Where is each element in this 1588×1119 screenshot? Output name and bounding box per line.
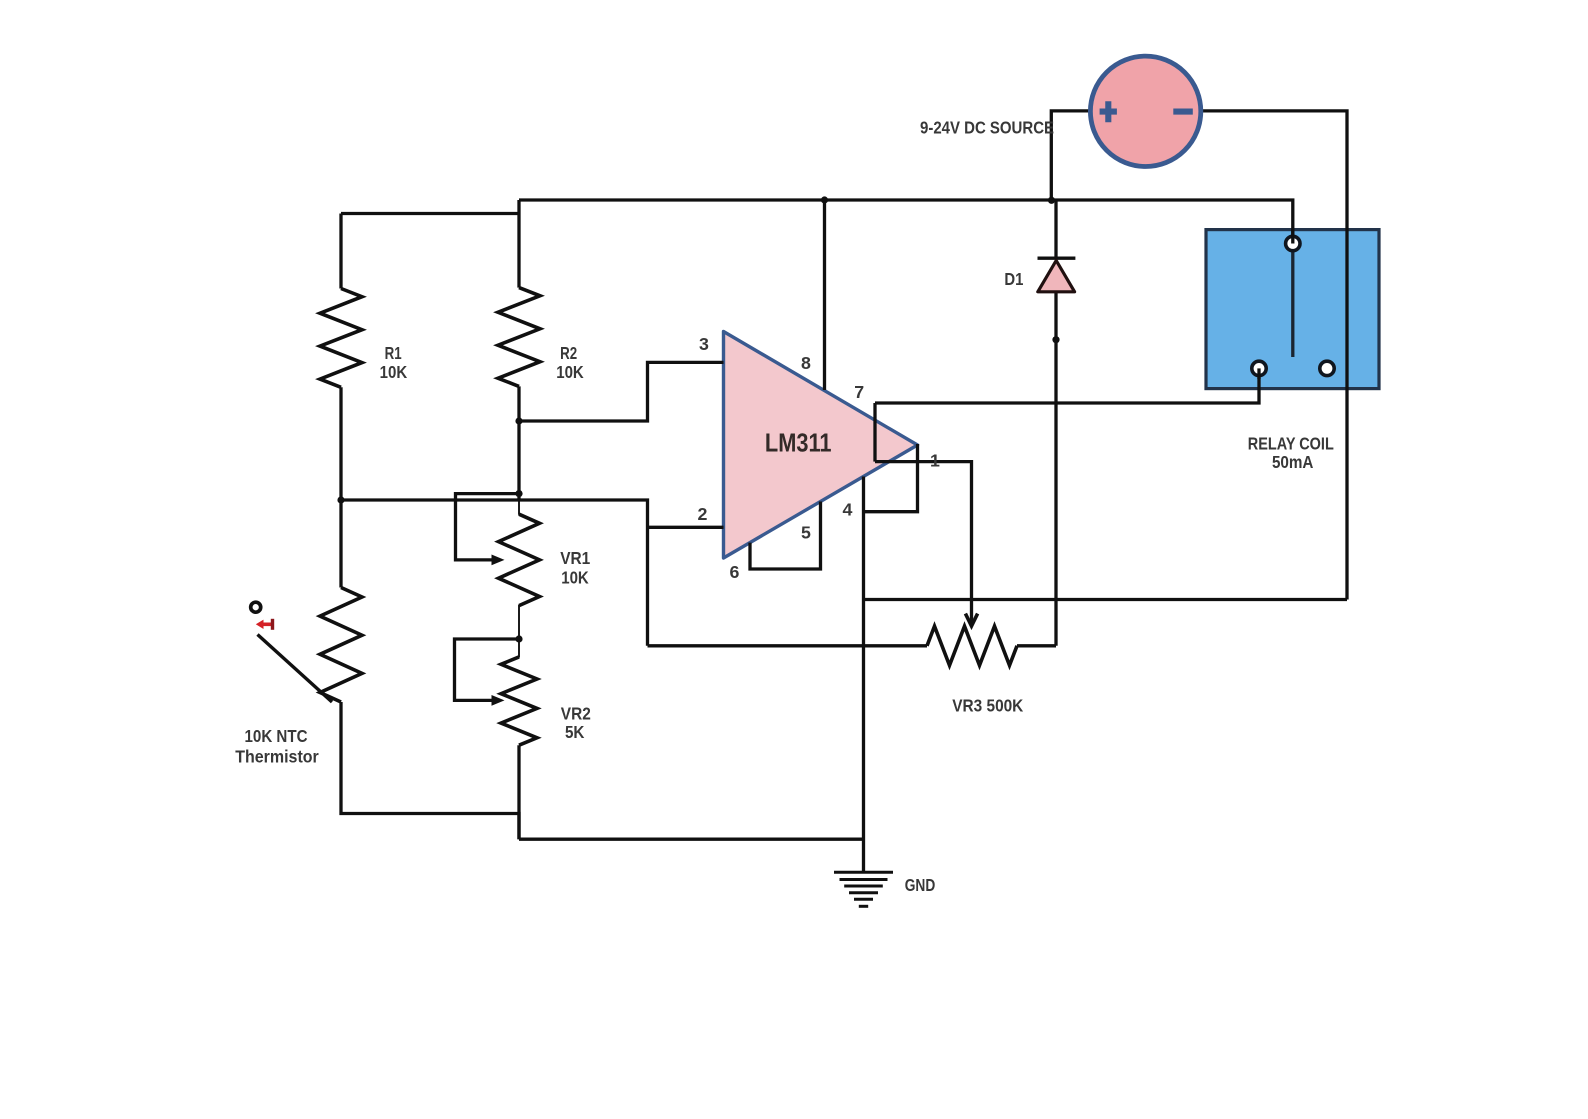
svg-text:50mA: 50mA [1272, 452, 1314, 472]
svg-text:10K NTC: 10K NTC [245, 726, 308, 746]
svg-text:3: 3 [699, 334, 709, 354]
svg-text:D1: D1 [1004, 269, 1023, 289]
svg-text:9-24V DC SOURCE: 9-24V DC SOURCE [920, 117, 1054, 137]
svg-text:R1: R1 [385, 343, 402, 363]
svg-text:R2: R2 [560, 343, 577, 363]
svg-text:10K: 10K [380, 362, 408, 382]
svg-text:7: 7 [854, 382, 864, 402]
svg-text:VR3 500K: VR3 500K [952, 695, 1023, 715]
svg-text:GND: GND [905, 875, 936, 895]
svg-text:5K: 5K [565, 722, 585, 742]
svg-text:5: 5 [801, 523, 811, 543]
svg-text:10K: 10K [561, 568, 589, 588]
svg-text:2: 2 [698, 504, 708, 524]
svg-text:10K: 10K [556, 362, 584, 382]
svg-text:4: 4 [843, 499, 853, 519]
svg-text:Thermistor: Thermistor [235, 747, 319, 767]
svg-text:8: 8 [801, 353, 811, 373]
svg-text:1: 1 [930, 451, 940, 471]
svg-text:VR2: VR2 [561, 704, 591, 724]
svg-text:6: 6 [730, 562, 740, 582]
svg-text:RELAY COIL: RELAY COIL [1248, 433, 1334, 453]
svg-text:LM311: LM311 [765, 427, 832, 457]
svg-text:VR1: VR1 [560, 548, 590, 568]
